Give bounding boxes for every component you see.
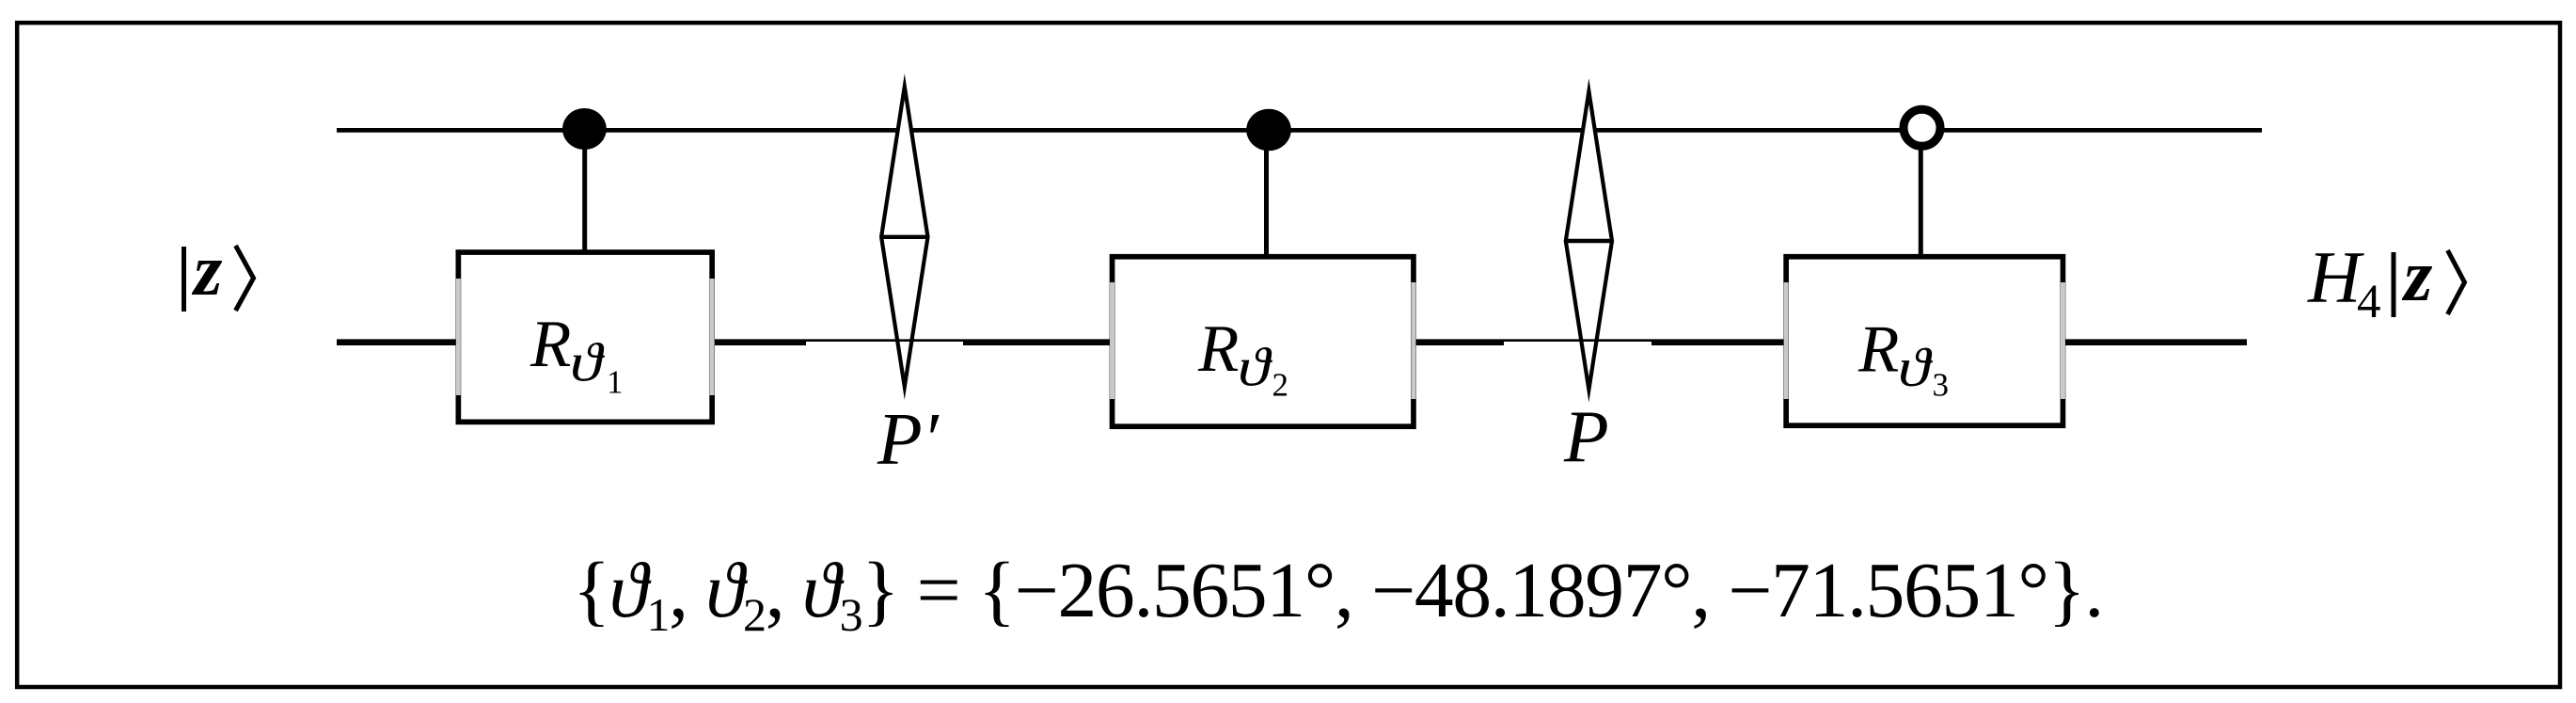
svg-text:R: R [1857, 313, 1899, 387]
svg-text:ϑ: ϑ [1238, 337, 1273, 398]
svg-text:ϑ: ϑ [570, 332, 606, 393]
svg-text:z: z [2401, 234, 2433, 316]
svg-text:3: 3 [1933, 367, 1950, 404]
svg-text:2: 2 [1272, 367, 1289, 404]
svg-text:{ϑ1, ϑ2, ϑ3} = {−26.5651°, −48: {ϑ1, ϑ2, ϑ3} = {−26.5651°, −48.1897°, −7… [573, 548, 2103, 641]
svg-text:R: R [1197, 312, 1239, 386]
svg-text:4: 4 [2357, 276, 2381, 328]
svg-text:P′: P′ [877, 398, 940, 480]
svg-text:H: H [2307, 236, 2364, 318]
svg-text:ϑ: ϑ [1898, 337, 1934, 398]
svg-text:1: 1 [607, 364, 624, 401]
svg-text:z: z [191, 229, 223, 311]
svg-text:P: P [1563, 395, 1609, 477]
svg-text:R: R [529, 308, 571, 381]
